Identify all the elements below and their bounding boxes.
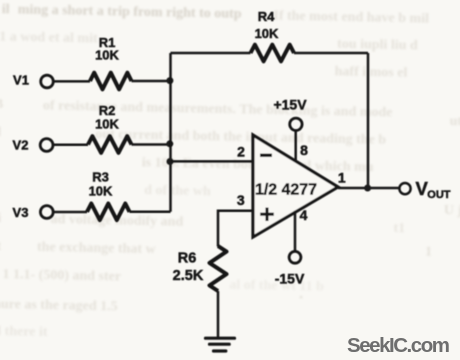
svg-text:haff i mos el: haff i mos el [334,64,407,80]
svg-text:t1: t1 [393,221,405,236]
svg-text:4: 4 [300,207,308,223]
junction R2/bus [166,140,173,147]
svg-text:R6: R6 [178,251,197,267]
wire bus to op-amp pin 2 [171,160,253,163]
wire summing bus (vertical) [169,53,172,212]
wire R3 to summing bus [130,211,171,214]
svg-text:1 1.1- (500) and ster: 1 1.1- (500) and ster [2,267,121,284]
node V2 terminal [40,139,53,152]
wire pin 8 to +15V [294,131,297,162]
wire top feedback (bus to R4) [171,52,251,55]
wire op-amp pin 3 to R6 [218,211,252,247]
svg-text:2: 2 [237,144,245,160]
svg-text:d there it: d there it [0,324,48,340]
resistor R6 [210,246,227,291]
junction R1/bus [166,77,173,84]
svg-text:10K: 10K [95,117,119,132]
svg-text:V1: V1 [13,73,29,88]
label VOUT [416,178,451,201]
svg-text:10K: 10K [89,184,113,199]
svg-text:1: 1 [425,245,432,260]
svg-text:V2: V2 [13,138,29,153]
wire V3 to R3 [53,211,87,214]
wire op-amp output [338,187,399,190]
resistor R1 [90,73,132,90]
wire pin 4 to -15V [294,211,297,251]
svg-text:10K: 10K [255,26,279,41]
svg-text:aure as the raged 1.5: aure as the raged 1.5 [0,297,118,314]
resistor R3 [87,204,130,221]
wire R1 to summing bus [132,80,171,83]
svg-text:U j: U j [444,203,460,218]
svg-text:1/2 4277: 1/2 4277 [255,182,317,199]
wire V2 to R2 [53,144,88,147]
svg-text:R3: R3 [92,170,109,185]
svg-text:2.5K: 2.5K [173,268,204,284]
resistor R2 [88,136,132,153]
junction bus/inverting-input [167,158,174,165]
svg-text:10K: 10K [95,48,119,63]
svg-text:1: 1 [338,170,346,186]
svg-text:il: il [2,2,10,17]
ground [206,338,235,351]
wire R4 to feedback drop [294,52,368,55]
svg-text:+15V: +15V [273,97,307,113]
node V1 terminal [41,75,54,88]
svg-text:d of the wh: d of the wh [144,183,211,199]
wire R2 to summing bus [132,143,171,146]
svg-text:V3: V3 [13,205,29,220]
junction output/feedback [364,185,371,192]
svg-text:B: B [0,97,3,112]
svg-text:R4: R4 [258,9,275,24]
op-amp plus input marking [260,208,274,222]
-15V supply terminal [289,251,301,263]
wire feedback (vertical to output) [367,53,370,188]
svg-text:SeekIC.com: SeekIC.com [347,334,450,357]
resistor R4 [251,45,295,62]
op-amp U1 (1/2 4277) [253,135,338,237]
svg-text:-15V: -15V [275,271,305,287]
svg-text:ut: ut [450,114,460,129]
svg-text:1 a wod et al mit: 1 a wod et al mit [0,29,98,46]
node V3 terminal [40,206,53,219]
+15V supply terminal [290,118,302,130]
svg-text:tou iupli liu d: tou iupli liu d [337,37,418,54]
wire V1 to R1 [53,80,90,83]
svg-text:8: 8 [300,142,308,158]
svg-text:OUT: OUT [427,189,451,201]
node VOUT terminal [399,183,410,194]
op-amp minus input marking [260,154,272,157]
svg-text:the exchange that w: the exchange that w [37,240,157,257]
wire R6 to ground [217,291,220,337]
svg-text:3: 3 [237,192,245,208]
